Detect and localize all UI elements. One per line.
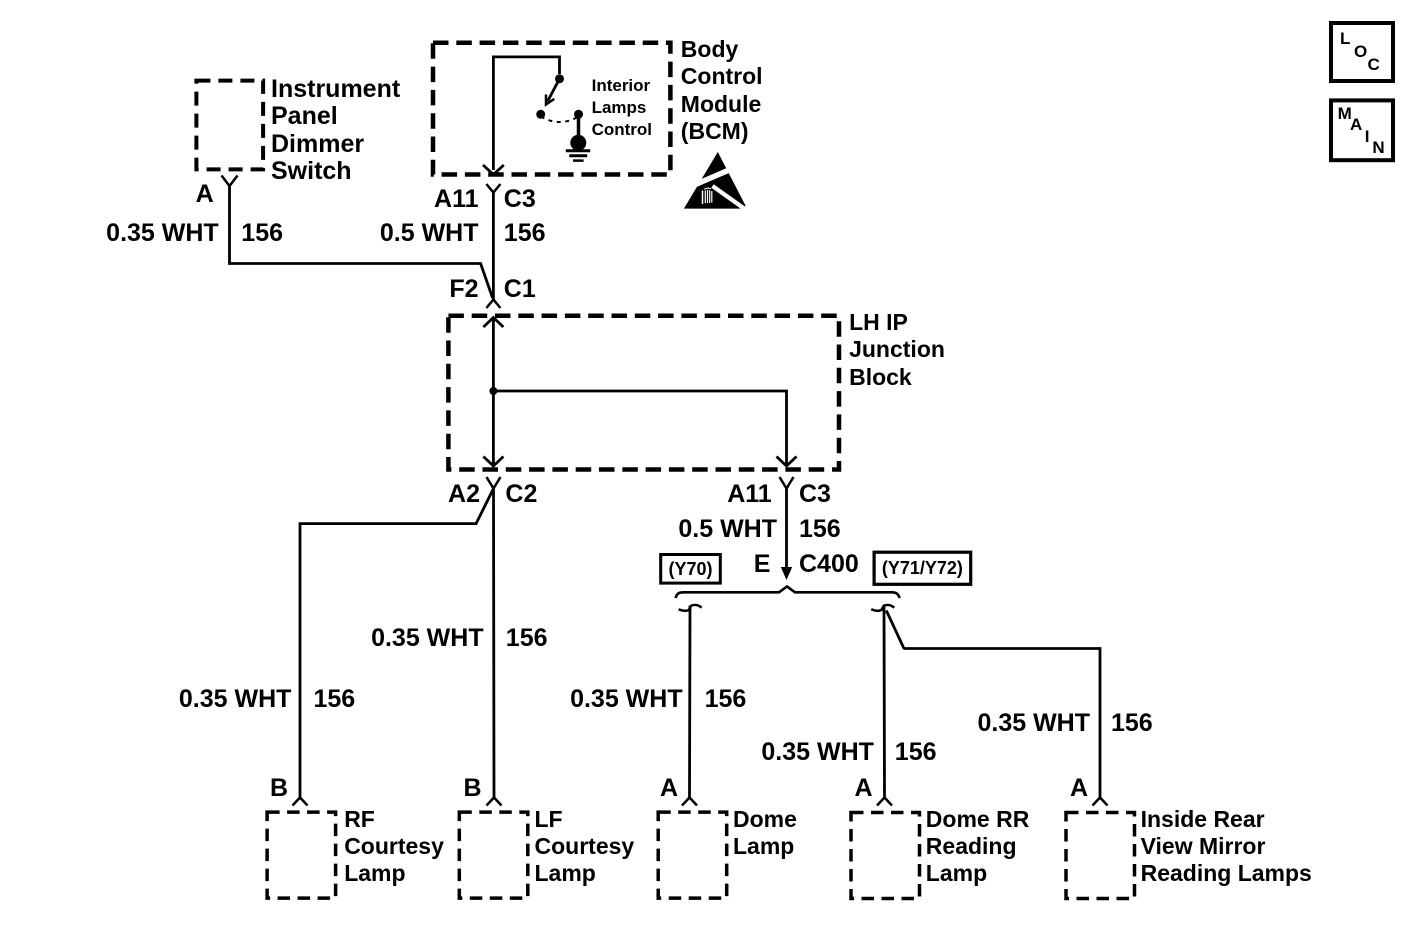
circuit number 156 left <box>241 220 283 248</box>
wire label 0.35 WHT RF branch <box>179 686 292 714</box>
LH IP junction block box <box>448 316 839 470</box>
pin F2 label <box>449 276 478 304</box>
circuit number 156 lower <box>799 516 841 544</box>
BCM terminal A11 C3 (Y connector) <box>486 184 500 193</box>
down arrow left leg <box>483 457 503 467</box>
dimmer switch terminal A (Y connector) <box>222 176 238 187</box>
circuit number 156 mirror branch <box>1111 710 1153 738</box>
wire 0.35 WHT 156 to dome lamp <box>688 606 691 798</box>
pin A11 label top <box>434 186 478 214</box>
ground line 2 <box>569 154 587 157</box>
label dome RR reading lamp <box>926 806 1030 887</box>
arrowhead at C400 <box>781 567 792 580</box>
junction block terminal F2 C1 (inverted Y) <box>486 300 500 309</box>
dome lamp box <box>658 812 727 898</box>
up arrow inside junction block <box>483 318 503 328</box>
junction block internal wire left <box>492 318 495 467</box>
Y70 label box <box>661 555 721 584</box>
label body control module <box>681 36 763 145</box>
connector C400 label <box>799 551 859 579</box>
pin A11 label lower <box>727 481 771 509</box>
LOC letter O <box>1354 43 1367 60</box>
pin A label mirror reading lamps <box>1070 775 1088 803</box>
dome RR reading lamp box <box>851 813 920 899</box>
label LF courtesy lamp <box>535 806 635 887</box>
RF courtesy lamp box <box>267 812 336 898</box>
actuator ball <box>570 135 586 151</box>
terminal A dome RR reading lamp <box>877 798 892 806</box>
node Y71/Y72 label <box>874 552 971 584</box>
pin C2 label <box>505 481 537 509</box>
node Y70 label <box>661 555 721 584</box>
terminal A11 C3 lower (Y connector) <box>780 477 794 489</box>
LOC box <box>1331 23 1393 81</box>
pin B label RF courtesy lamp <box>270 775 288 803</box>
wire 0.35 WHT 156 dimmer to F2 <box>230 186 493 298</box>
MAIN letter N <box>1372 139 1384 156</box>
circuit number 156 RF branch <box>314 686 356 714</box>
pin A label dimmer switch <box>196 181 214 209</box>
circuit number 156 top center <box>504 220 546 248</box>
label LH IP junction block <box>849 309 945 391</box>
MAIN letter M <box>1338 105 1352 122</box>
pin A2 label <box>448 481 480 509</box>
switch contact dot <box>536 110 545 119</box>
wire label 0.5 WHT top <box>380 220 479 248</box>
wire label 0.35 WHT dome RR branch <box>761 739 874 767</box>
terminal A2 C2 (Y connector) <box>487 477 501 489</box>
terminal A dome lamp <box>682 798 697 806</box>
switch pivot dot <box>555 74 564 83</box>
wire 0.5 WHT 156 to C400 <box>785 489 788 569</box>
wire label 0.35 WHT mirror branch <box>977 710 1090 738</box>
wire 0.5 WHT 156 BCM to junction block <box>492 193 495 300</box>
pin C1 label <box>504 276 536 304</box>
wire label 0.5 WHT lower <box>678 516 777 544</box>
terminal B LF courtesy lamp <box>487 798 502 806</box>
terminal B RF courtesy lamp <box>293 798 308 806</box>
switch arm arrowhead <box>546 95 554 105</box>
pin E label <box>754 551 771 579</box>
MAIN letter I <box>1365 128 1370 145</box>
control actuator dot <box>574 110 583 119</box>
wire label 0.35 WHT left <box>106 220 219 248</box>
wire label 0.35 WHT dome branch <box>570 686 683 714</box>
ground line 1 <box>566 149 590 152</box>
wire label 0.35 WHT LF branch <box>371 625 484 653</box>
actuator stem <box>577 114 581 135</box>
switch travel dashed arc <box>541 117 579 123</box>
body control module box <box>433 43 670 175</box>
wire 0.35 WHT 156 to inside rear view mirror <box>886 611 1100 798</box>
pin C3 label lower <box>799 481 831 509</box>
pin A label dome RR reading lamp <box>854 775 872 803</box>
arrow out of BCM <box>483 165 504 175</box>
label inside rear view mirror reading lamps <box>1141 806 1312 887</box>
label RF courtesy lamp <box>344 806 444 887</box>
instrument panel dimmer switch box <box>196 81 263 170</box>
switch arm <box>548 79 560 102</box>
LOC letter L <box>1340 30 1350 47</box>
inside rear view mirror reading lamps box <box>1066 813 1135 899</box>
ground line 3 <box>573 159 584 162</box>
pin B label LF courtesy lamp <box>463 775 481 803</box>
junction node dot <box>489 387 497 395</box>
wire 0.35 WHT 156 to LF courtesy lamp <box>492 489 495 798</box>
BCM internal wire <box>493 57 559 170</box>
LF courtesy lamp box <box>459 812 528 898</box>
MAIN box <box>1331 100 1393 160</box>
circuit number 156 dome RR branch <box>895 739 937 767</box>
splice hook left <box>679 605 702 611</box>
circuit number 156 dome branch <box>705 686 747 714</box>
pin A label dome lamp <box>660 775 678 803</box>
label instrument panel dimmer switch <box>271 76 400 186</box>
down arrow right leg <box>777 457 797 467</box>
circuit number 156 LF branch <box>506 625 548 653</box>
Y71/Y72 label box <box>874 552 971 584</box>
terminal A inside rear view mirror <box>1093 798 1108 806</box>
connector C400 brace <box>676 587 900 599</box>
ESD symbol <box>684 152 746 210</box>
label interior lamps control <box>592 75 652 141</box>
wire 0.35 WHT 156 to dome RR reading lamp <box>883 606 886 797</box>
label dome lamp <box>733 806 797 860</box>
wire 0.35 WHT 156 to RF courtesy lamp <box>300 489 494 798</box>
pin C3 label top <box>504 186 536 214</box>
splice hook right <box>871 605 894 611</box>
LOC letter C <box>1368 56 1380 73</box>
MAIN letter A <box>1350 116 1362 133</box>
jumper wire to right leg <box>493 391 786 466</box>
